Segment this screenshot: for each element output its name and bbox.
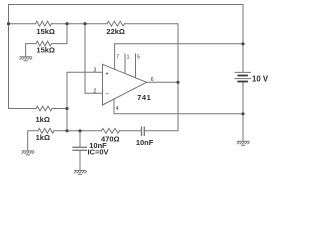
svg-text:2: 2 xyxy=(94,88,97,94)
svg-text:6: 6 xyxy=(151,77,154,83)
wire to series cap xyxy=(120,130,142,132)
wire gnd riser 1k row2 xyxy=(28,131,38,151)
svg-text:IC=0V: IC=0V xyxy=(87,148,108,157)
wire pin4 to battery minus xyxy=(114,99,243,114)
wire to output column xyxy=(125,24,178,131)
wire pin5 stub xyxy=(135,54,137,78)
svg-text:15kΩ: 15kΩ xyxy=(36,45,55,54)
resistor R1 15k xyxy=(36,21,52,26)
wire R2 to node xyxy=(52,24,68,44)
svg-text:5: 5 xyxy=(137,55,140,61)
wire bottom row xyxy=(54,130,101,132)
capacitor C2 10nF series plates xyxy=(141,127,143,135)
svg-text:15kΩ: 15kΩ xyxy=(36,27,55,36)
ground below R2 xyxy=(19,57,32,61)
svg-text:1kΩ: 1kΩ xyxy=(36,115,50,124)
wire top rail xyxy=(9,5,244,109)
svg-text:741: 741 xyxy=(137,93,151,102)
svg-text:1: 1 xyxy=(127,55,130,61)
wire pin7 supply rail xyxy=(115,44,243,69)
wire pin1 stub xyxy=(124,54,126,74)
ground below battery xyxy=(237,141,250,145)
op-amp U1 741 triangle xyxy=(103,64,147,105)
wire output pin6 xyxy=(147,81,179,83)
svg-text:10 V: 10 V xyxy=(252,74,269,83)
svg-text:22kΩ: 22kΩ xyxy=(106,27,125,36)
capacitor C1 10nF shunt plates xyxy=(73,146,87,148)
svg-text:1kΩ: 1kΩ xyxy=(36,133,50,142)
wire cap to ground xyxy=(79,151,81,170)
ground below R5 xyxy=(22,151,35,155)
svg-text:7: 7 xyxy=(116,55,119,61)
wire 1k row1 xyxy=(9,108,37,110)
svg-text:−: − xyxy=(105,92,109,98)
svg-text:3: 3 xyxy=(94,68,97,74)
svg-text:10nF: 10nF xyxy=(136,138,154,147)
wire battery minus to ground xyxy=(242,82,244,141)
svg-text:4: 4 xyxy=(116,106,119,112)
ground below C1 xyxy=(74,170,87,174)
wire xyxy=(52,108,67,110)
wire cap to output column xyxy=(145,130,178,132)
wire shunt cap drop xyxy=(79,131,81,147)
resistor R6 470 xyxy=(101,128,119,133)
wire xyxy=(52,23,108,25)
wire pin3 column xyxy=(67,72,103,131)
svg-text:+: + xyxy=(105,72,109,78)
wire pin2 drop xyxy=(85,24,103,94)
resistor R4 1k xyxy=(36,106,52,111)
resistor R5 1k xyxy=(38,128,54,133)
battery V1 plates xyxy=(234,72,251,78)
wire inverting-node row xyxy=(9,23,36,25)
resistor R3 22k xyxy=(107,21,125,26)
resistor R2 15k row xyxy=(26,44,36,57)
